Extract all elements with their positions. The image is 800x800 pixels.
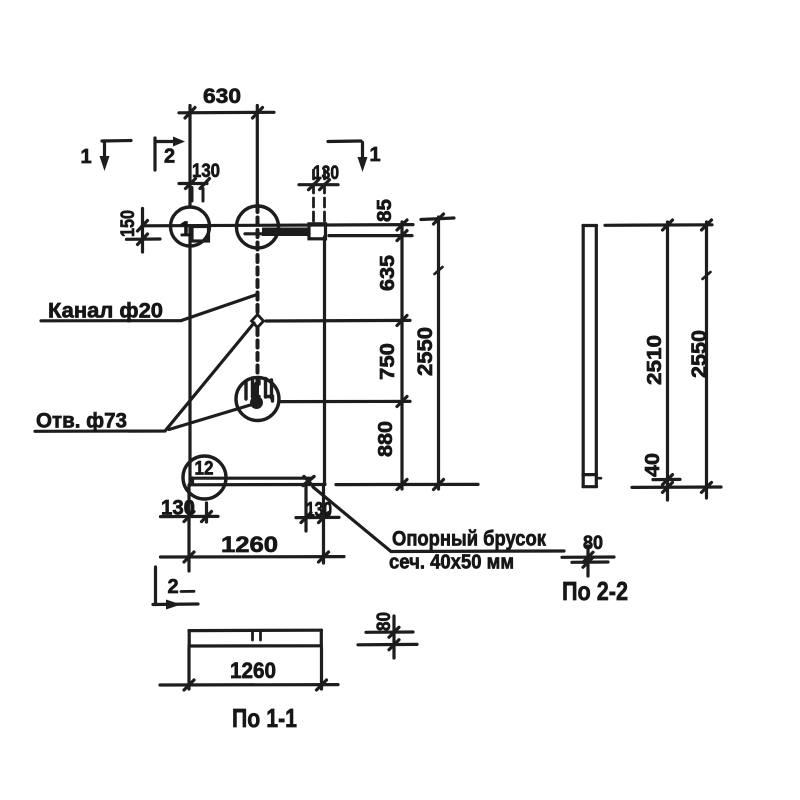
svg-text:130: 130 xyxy=(161,497,195,520)
section 2-2 bottom extension xyxy=(632,485,721,489)
circle 2 (channel top, top-middle) xyxy=(237,206,279,248)
support bar square in section 2-2 xyxy=(583,473,597,476)
svg-text:1260: 1260 xyxy=(230,658,276,683)
section marker 1 top-right xyxy=(328,139,361,143)
dimension 150 left line xyxy=(141,209,144,253)
right dim line 85/635/750/880 xyxy=(400,222,403,489)
dimension 130 bottom-right line xyxy=(296,516,339,519)
svg-text:1: 1 xyxy=(80,146,91,168)
svg-text:130: 130 xyxy=(306,499,332,522)
section 2-2 plank outline xyxy=(583,224,597,227)
dim line 2510 xyxy=(666,222,669,500)
panel left edge xyxy=(188,226,191,484)
right dim chain: 2550 top extension xyxy=(421,218,454,220)
svg-text:130: 130 xyxy=(192,161,220,182)
svg-text:80: 80 xyxy=(583,533,603,554)
dimension 150 lower extension xyxy=(127,237,161,241)
dimension 1260 (section 1-1) line xyxy=(160,683,338,687)
support bar end square top-left xyxy=(192,227,209,242)
svg-text:130: 130 xyxy=(313,163,339,184)
panel right edge xyxy=(323,237,326,484)
svg-text:2: 2 xyxy=(164,146,175,168)
support bar bottom end X mark xyxy=(303,477,314,486)
svg-text:2550: 2550 xyxy=(688,330,711,378)
leader line: channel label xyxy=(41,295,257,321)
section 1-1 extensions xyxy=(187,648,190,689)
dim line 2550 (section 2-2) xyxy=(705,222,708,498)
ticks on right dim line xyxy=(397,220,407,230)
leader line: support bar note xyxy=(313,487,564,552)
svg-text:1: 1 xyxy=(180,218,192,241)
channel dashed centreline xyxy=(256,205,260,314)
svg-text:12: 12 xyxy=(195,459,214,480)
section 2-2 40-extension xyxy=(653,478,680,481)
dimension 630 tick right xyxy=(253,108,263,119)
circle 4 (mark 12, bottom-left) xyxy=(183,456,226,499)
dimension 80 (section 2-2 width) xyxy=(586,546,589,576)
svg-text:2550: 2550 xyxy=(414,327,437,376)
right dim chain: bottom extension xyxy=(336,483,478,486)
section marker 2 top-left xyxy=(153,138,156,170)
panel bottom edge xyxy=(189,483,325,486)
svg-text:880: 880 xyxy=(375,421,397,457)
svg-text:Канал ф20: Канал ф20 xyxy=(48,300,163,323)
support bar top (thick fill) xyxy=(262,228,308,237)
section 1-1 slab outline xyxy=(189,629,322,633)
right dim chain: extension at hole level xyxy=(280,400,410,403)
svg-text:1: 1 xyxy=(369,144,380,166)
dimension 130 top-right extensions xyxy=(312,170,315,221)
svg-text:По 1-1: По 1-1 xyxy=(232,703,297,733)
extension right edge bottom xyxy=(322,486,325,563)
support bar bottom left cap xyxy=(191,478,194,484)
panel top edge xyxy=(142,225,413,226)
right dim chain: extension at node level xyxy=(266,319,410,323)
right dim line 2550 xyxy=(437,217,440,489)
extension circle4 bottom xyxy=(205,503,208,522)
leader line: hole label (two branches) xyxy=(35,323,254,431)
svg-text:635: 635 xyxy=(377,255,399,291)
svg-text:150: 150 xyxy=(118,210,139,237)
svg-text:80: 80 xyxy=(374,612,395,631)
text mark in circle 3 (scribble) xyxy=(246,378,273,402)
svg-text:40: 40 xyxy=(642,453,664,477)
dimension 130 bottom-left line xyxy=(161,515,219,518)
extension bar end bottom xyxy=(304,486,307,531)
svg-text:630: 630 xyxy=(203,85,241,108)
svg-text:2: 2 xyxy=(167,576,178,598)
node diamond on channel xyxy=(252,315,264,328)
dimension 630 line xyxy=(179,111,274,115)
svg-text:сеч. 40х50 мм: сеч. 40х50 мм xyxy=(389,552,514,574)
right dim chain: second top extension (85 lower line) xyxy=(329,234,412,237)
svg-text:По 2-2: По 2-2 xyxy=(562,576,628,606)
svg-text:2510: 2510 xyxy=(644,335,666,385)
support bar top lead-in inside circle 2 xyxy=(245,232,263,235)
dimension 630 tick left xyxy=(185,108,195,119)
section 2-2 top extension xyxy=(605,223,712,227)
ticks on 2550 dim line xyxy=(434,214,444,224)
dimension 150 tick bottom xyxy=(138,234,148,245)
dimension 80 (section 1-1 thickness) xyxy=(392,616,395,658)
circle 1 (mark 1, top-left) xyxy=(171,207,210,246)
support bar end square top-right xyxy=(309,224,326,239)
dimension 630 extension right xyxy=(256,106,259,206)
svg-text:Опорный брусок: Опорный брусок xyxy=(392,528,546,551)
section marker 1 top-left xyxy=(102,139,131,143)
svg-text:1260: 1260 xyxy=(221,532,278,557)
dimension 630 extension left xyxy=(188,106,191,207)
circle 3 (hole, middle) xyxy=(236,378,279,421)
dimension 130 top-right tick line xyxy=(299,183,338,186)
svg-text:Отв. ф73: Отв. ф73 xyxy=(36,410,127,433)
channel marks inside slab xyxy=(251,631,254,640)
dimension 1260 (plan) line xyxy=(161,555,345,559)
hole centre dot in circle 3 xyxy=(250,396,263,409)
dimension 130 top-left tick line xyxy=(179,182,207,185)
dimension 130 top-left extensions xyxy=(191,188,194,202)
support bar bottom top line xyxy=(192,477,310,480)
svg-text:750: 750 xyxy=(377,343,399,380)
section marker 2 bottom-left xyxy=(154,567,157,605)
svg-text:85: 85 xyxy=(374,199,396,222)
dimension 150 tick top xyxy=(138,221,148,232)
extension below left edge xyxy=(187,486,190,571)
